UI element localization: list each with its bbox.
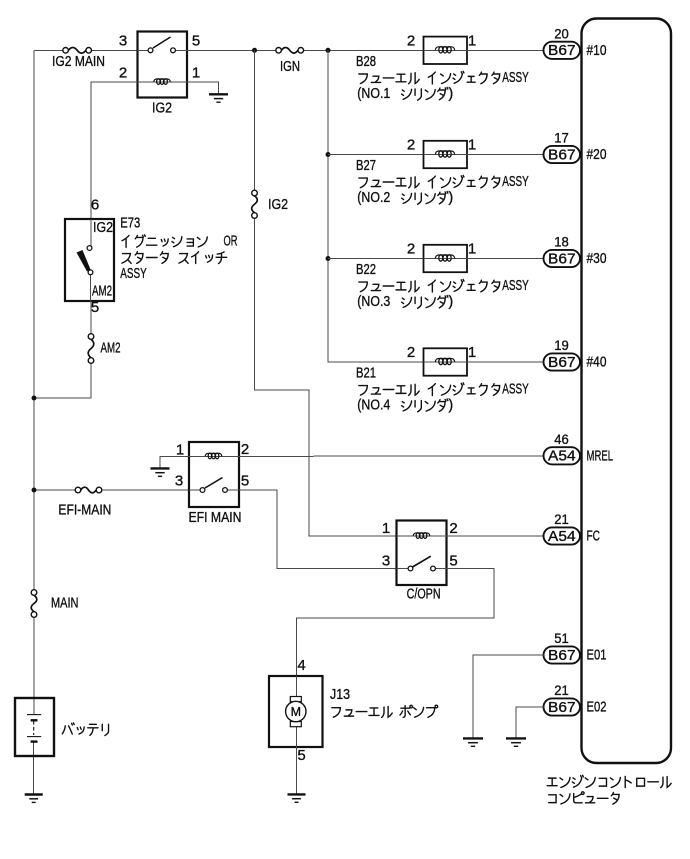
connector A54 FC oval (544, 527, 581, 544)
motor brushes (290, 697, 301, 727)
label E02 (587, 699, 607, 716)
wire relay IG2 pin2 to switch E73 pin6 (91, 82, 138, 219)
relay C/OPN blade (413, 556, 431, 567)
label EFI MAIN (189, 510, 242, 526)
wire E01 to ground (473, 655, 544, 738)
svg-text:4: 4 (297, 657, 305, 674)
pin 51 of ECU E01 (554, 630, 569, 646)
svg-text:B67: B67 (548, 354, 576, 371)
label フューエル インジェクタASSY B28 (359, 70, 529, 86)
svg-text:(NO.1: (NO.1 (357, 86, 390, 102)
label IGN (280, 59, 300, 75)
wire E02 to ground (516, 707, 544, 738)
svg-text:2: 2 (407, 33, 415, 50)
label B67 (548, 647, 576, 664)
ground at fuel pump (288, 794, 306, 802)
connector A54 MREL oval (544, 447, 581, 464)
connector B67 E01 oval (544, 646, 581, 663)
svg-text:2: 2 (407, 344, 415, 361)
pin 5 of EFI MAIN (241, 473, 249, 490)
label A54 (548, 448, 576, 465)
label フューエル インジェクタASSY B22 (359, 278, 529, 294)
label IG2 MAIN (52, 54, 105, 70)
svg-text:B28: B28 (356, 54, 376, 70)
connector B67 #30 oval (544, 250, 581, 267)
injector B28 coil wire (424, 49, 468, 51)
switch E73 internal wires (90, 219, 93, 301)
label B67 (548, 699, 576, 716)
label ASSY (120, 266, 147, 282)
svg-text:ASSY: ASSY (502, 382, 529, 398)
ECU エンジンコントロール コンピュータ box (582, 19, 672, 764)
svg-text:2: 2 (407, 241, 415, 258)
battery cells (27, 715, 41, 742)
ground at E01 (463, 738, 483, 746)
label B67 (548, 354, 576, 371)
relay EFI MAIN switch wire (189, 489, 239, 491)
label バッテリ (62, 723, 108, 736)
svg-text:21: 21 (554, 511, 569, 527)
svg-text:#40: #40 (587, 354, 607, 371)
svg-text:6: 6 (91, 197, 99, 214)
label コンピュータ (549, 792, 619, 804)
svg-text:5: 5 (241, 473, 249, 490)
injector B21 box (424, 348, 468, 375)
label #40 (587, 354, 607, 371)
label NO.1 シリンダ (357, 86, 453, 102)
label NO.4 シリンダ (357, 398, 453, 414)
battery box (15, 698, 54, 756)
relay EFI MAIN coil wire (189, 455, 239, 457)
pin 2 (119, 65, 127, 82)
svg-text:ASSY: ASSY (502, 174, 529, 190)
svg-text:AM2: AM2 (101, 341, 121, 357)
svg-text:51: 51 (554, 630, 569, 646)
relay IG2 switch blade (153, 37, 171, 48)
wire B21 to ECU (467, 361, 544, 363)
pin 1 of B21 (468, 344, 476, 361)
svg-text:MAIN: MAIN (51, 596, 79, 612)
label イグニッション OR (122, 233, 238, 249)
junction row3 (326, 256, 331, 261)
svg-text:ASSY: ASSY (502, 70, 529, 86)
wire battery bus to relay IG2 pin 3 (34, 49, 138, 51)
label A54 (548, 528, 576, 545)
svg-text:1: 1 (382, 520, 390, 537)
junction row2 (326, 152, 331, 157)
svg-text:#20: #20 (587, 146, 607, 163)
label フューエル ポンプ (332, 705, 438, 717)
label #20 (587, 146, 607, 163)
svg-text:5: 5 (192, 33, 200, 50)
svg-text:3: 3 (175, 473, 183, 490)
pin 2 of B22 (407, 241, 415, 258)
svg-text:5: 5 (297, 747, 305, 764)
switch E73 box (65, 219, 114, 301)
label B27 (356, 158, 376, 174)
pin 20 of ECU #10 (554, 26, 569, 42)
pin 18 of ECU #30 (554, 234, 569, 250)
wire row2 (328, 154, 424, 156)
label MREL (587, 447, 614, 464)
svg-text:B27: B27 (356, 158, 376, 174)
pin 21 of ECU E02 (554, 682, 569, 698)
injector B28 box (424, 37, 468, 64)
connector B67 #40 oval (544, 353, 581, 370)
svg-text:17: 17 (554, 130, 569, 146)
pin 19 of ECU #40 (554, 337, 569, 353)
svg-text:EFI MAIN: EFI MAIN (189, 510, 242, 526)
label FC (587, 528, 601, 545)
pin 21 of ECU FC (554, 511, 569, 527)
pin 1 (192, 65, 200, 82)
svg-text:A54: A54 (548, 528, 576, 545)
svg-text:): ) (448, 398, 453, 414)
ground at E02 (506, 738, 526, 746)
svg-text:46: 46 (554, 431, 569, 447)
svg-text:IG2 MAIN: IG2 MAIN (52, 54, 105, 70)
wire IGN junction to C/OPN coil (255, 50, 397, 536)
svg-text:): ) (448, 294, 453, 310)
label IG2 relay (152, 101, 172, 117)
fuel pump J13 box (269, 676, 323, 747)
svg-text:2: 2 (449, 520, 457, 537)
relay C/OPN box (397, 521, 447, 586)
svg-text:#10: #10 (587, 42, 607, 59)
svg-text:1: 1 (468, 344, 476, 361)
svg-text:3: 3 (119, 33, 127, 50)
ground at IG2 relay (209, 94, 228, 102)
pin 1 of B27 (468, 137, 476, 154)
pin 5 of pump (297, 747, 305, 764)
injector B27 coil (435, 151, 454, 157)
svg-text:18: 18 (554, 234, 569, 250)
svg-text:2: 2 (241, 441, 249, 458)
junction EFI-MAIN row (32, 488, 37, 493)
label B28 (356, 54, 376, 70)
pin 2 of C/OPN (449, 520, 457, 537)
label MAIN (51, 596, 79, 612)
svg-text:B21: B21 (356, 366, 376, 382)
fuse MAIN (31, 590, 38, 618)
svg-text:(NO.3: (NO.3 (357, 294, 390, 310)
wire injector bus (328, 50, 424, 362)
pin 17 of ECU #20 (554, 130, 569, 146)
ground at EFI MAIN (151, 468, 170, 476)
injector B21 coil (435, 358, 454, 364)
fuse IGN (276, 47, 304, 54)
label スタータ スイッチ (122, 252, 227, 264)
label B21 (356, 366, 376, 382)
wire B28 to ECU (467, 49, 544, 51)
svg-text:): ) (448, 190, 453, 206)
relay EFI MAIN blade (205, 478, 223, 489)
injector B22 coil wire (424, 258, 468, 260)
relay IG2 switch wire (138, 49, 188, 51)
pin 3 of EFI MAIN (175, 473, 183, 490)
label #30 (587, 250, 607, 267)
svg-text:20: 20 (554, 26, 569, 42)
svg-text:OR: OR (224, 233, 238, 249)
junction at IGN fuse left (252, 48, 257, 53)
label IG2 fuse (268, 197, 288, 213)
svg-text:1: 1 (468, 137, 476, 154)
label B67 (548, 42, 576, 59)
fuse AM2 (88, 334, 95, 364)
svg-text:1: 1 (468, 241, 476, 258)
pin 6 (91, 197, 99, 214)
switch E73 contacts (87, 246, 93, 275)
svg-text:B67: B67 (548, 250, 576, 267)
label IG2 node in E73 (93, 220, 113, 236)
fuse IG2 vertical (251, 190, 258, 218)
wire into motor (296, 676, 298, 747)
wire bus to EFI MAIN relay pin3 (34, 489, 189, 491)
svg-text:E01: E01 (587, 647, 607, 664)
wire relay IG2 pin5 to IGN fuse and injectors bus (187, 49, 424, 51)
wire E73 pin5 to AM2 fuse to bus (34, 301, 91, 398)
relay C/OPN coil (413, 533, 430, 539)
svg-text:1: 1 (468, 33, 476, 50)
label C/OPN (407, 586, 441, 602)
wire EFI MAIN pin5 to C/OPN pin3 (239, 490, 397, 569)
label EFI-MAIN (58, 503, 111, 519)
svg-text:3: 3 (382, 553, 390, 570)
label フューエル インジェクタASSY B21 (359, 382, 529, 398)
svg-text:1: 1 (192, 65, 200, 82)
wire B22 to ECU (467, 258, 544, 260)
wire battery to ground (33, 741, 35, 794)
svg-text:B67: B67 (548, 699, 576, 716)
wire left bus from IG2 MAIN down to battery (33, 50, 35, 714)
svg-text:E73: E73 (120, 215, 140, 231)
junction injector bus top (326, 48, 331, 53)
wire row3 (328, 258, 424, 260)
svg-text:J13: J13 (330, 687, 350, 703)
svg-text:19: 19 (554, 337, 569, 353)
relay EFI MAIN contacts (200, 488, 227, 493)
svg-text:ASSY: ASSY (502, 278, 529, 294)
switch E73 blade (77, 250, 91, 272)
svg-text:IG2: IG2 (93, 220, 113, 236)
relay C/OPN switch wire (397, 568, 447, 570)
label NO.2 シリンダ (357, 190, 453, 206)
svg-text:B22: B22 (356, 262, 376, 278)
label NO.3 シリンダ (357, 294, 453, 310)
pin 2 of B21 (407, 344, 415, 361)
relay EFI MAIN coil (205, 453, 222, 459)
svg-text:ASSY: ASSY (120, 266, 147, 282)
svg-text:AM2: AM2 (92, 284, 112, 300)
wire C/OPN pin2 to FC (447, 535, 545, 537)
ground battery (25, 795, 43, 803)
fuse EFI-MAIN (75, 487, 102, 494)
wire B27 to ECU (467, 154, 544, 156)
pin 1 of B28 (468, 33, 476, 50)
relay EFI MAIN box (189, 442, 239, 507)
pin 5 (192, 33, 200, 50)
svg-text:A54: A54 (548, 448, 576, 465)
pin 1 of B22 (468, 241, 476, 258)
label B67 (548, 146, 576, 163)
injector B22 box (424, 245, 468, 272)
injector B22 coil (435, 255, 454, 261)
svg-text:5: 5 (91, 299, 99, 316)
svg-text:5: 5 (449, 553, 457, 570)
svg-text:2: 2 (407, 137, 415, 154)
pin 46 of ECU MREL (554, 431, 569, 447)
svg-text:E02: E02 (587, 699, 607, 716)
wire EFI MAIN pin1 to ground (160, 456, 189, 468)
relay C/OPN contacts (408, 566, 435, 571)
pin 2 of EFI MAIN (241, 441, 249, 458)
pin 3 of C/OPN (382, 553, 390, 570)
injector B28 coil (435, 47, 454, 53)
relay IG2 coil (154, 79, 171, 85)
connector B67 #10 oval (544, 42, 581, 59)
svg-text:(NO.4: (NO.4 (357, 398, 390, 414)
svg-text:IG2: IG2 (152, 101, 172, 117)
label B67 (548, 250, 576, 267)
svg-text:): ) (448, 86, 453, 102)
pin 1 of C/OPN (382, 520, 390, 537)
pin 5 of C/OPN (449, 553, 457, 570)
label #10 (587, 42, 607, 59)
pin 4 of pump (297, 657, 305, 674)
junction AM2-bus (32, 396, 37, 401)
relay C/OPN coil wire (397, 535, 447, 537)
pin 3 (119, 33, 127, 50)
connector B67 E02 oval (544, 698, 581, 715)
svg-text:EFI-MAIN: EFI-MAIN (58, 503, 111, 519)
pin 5 of E73 (91, 299, 99, 316)
svg-text:(NO.2: (NO.2 (357, 190, 390, 206)
label エンジンコントロール (547, 775, 671, 787)
label B22 (356, 262, 376, 278)
wire C/OPN pin5 to fuel pump (297, 569, 495, 677)
injector B21 coil wire (424, 361, 468, 363)
relay IG2 coil wire (138, 81, 188, 83)
label J13 (330, 687, 350, 703)
label フューエル インジェクタASSY B27 (359, 174, 529, 190)
svg-text:MREL: MREL (587, 447, 614, 464)
label E01 (587, 647, 607, 664)
wire EFI MAIN pin2 to MREL (239, 455, 544, 458)
motor M circle (286, 701, 306, 721)
pin 1 of EFI MAIN (176, 442, 184, 459)
relay IG2 box (138, 32, 188, 98)
svg-text:C/OPN: C/OPN (407, 586, 441, 602)
svg-text:M: M (291, 705, 301, 719)
connector B67 #20 oval (544, 146, 581, 163)
svg-text:B67: B67 (548, 42, 576, 59)
svg-text:#30: #30 (587, 250, 607, 267)
svg-text:21: 21 (554, 682, 569, 698)
svg-text:2: 2 (119, 65, 127, 82)
label E73 (120, 215, 140, 231)
injector B27 box (424, 141, 468, 168)
svg-text:IGN: IGN (280, 59, 300, 75)
relay IG2 switch contacts (148, 48, 175, 53)
injector B27 coil wire (424, 154, 468, 156)
wire pump to ground (296, 747, 298, 794)
pin 2 of B28 (407, 33, 415, 50)
label AM2 fuse (101, 341, 121, 357)
label AM2 node in E73 (92, 284, 112, 300)
svg-text:B67: B67 (548, 146, 576, 163)
svg-text:IG2: IG2 (268, 197, 288, 213)
svg-text:B67: B67 (548, 647, 576, 664)
wire relay IG2 pin1 to ground (187, 82, 219, 94)
pin 2 of B27 (407, 137, 415, 154)
svg-text:FC: FC (587, 528, 601, 545)
fuse IG2 MAIN (63, 47, 92, 54)
